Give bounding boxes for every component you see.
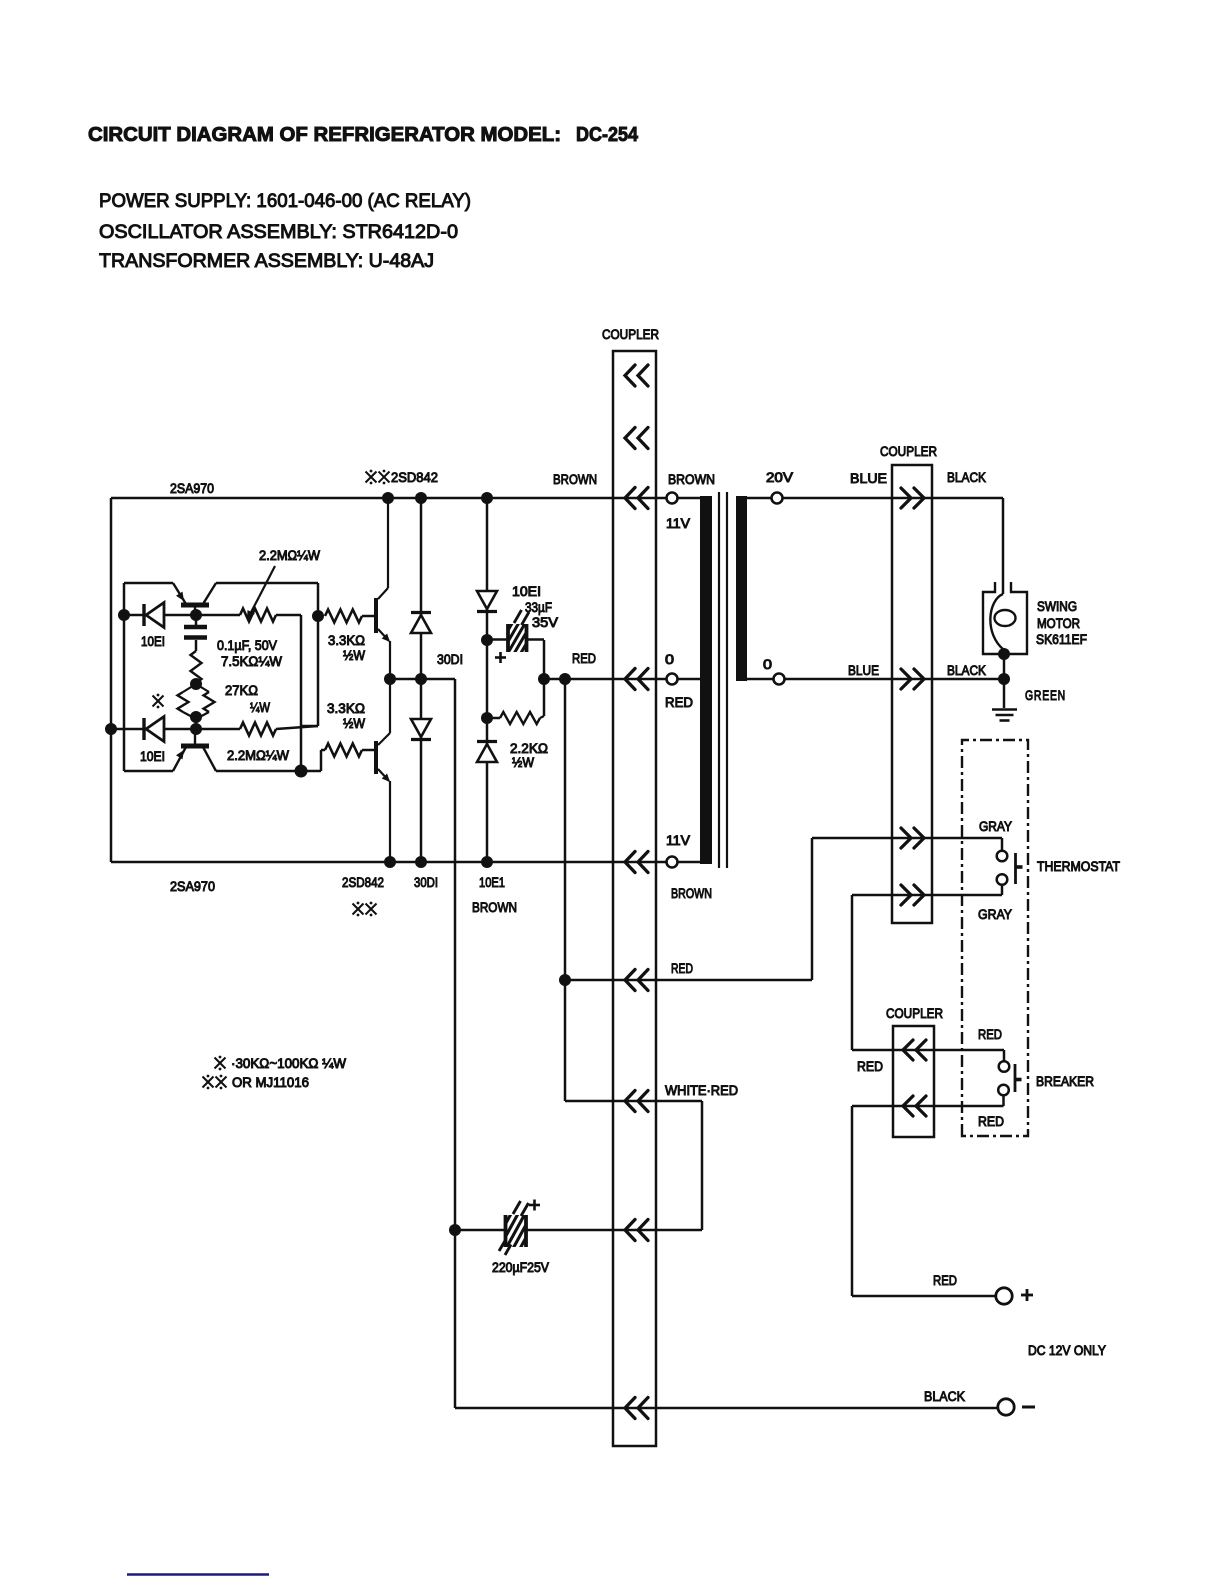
svg-text:2.2MΩ¼W: 2.2MΩ¼W bbox=[259, 548, 320, 563]
svg-text:BREAKER: BREAKER bbox=[1036, 1074, 1094, 1089]
svg-text:OR MJ11016: OR MJ11016 bbox=[232, 1075, 309, 1090]
svg-text:BROWN: BROWN bbox=[553, 472, 597, 487]
svg-text:20V: 20V bbox=[766, 470, 793, 485]
svg-text:RED: RED bbox=[978, 1027, 1002, 1042]
svg-text:POWER SUPPLY: 1601-046-00 (AC: POWER SUPPLY: 1601-046-00 (AC RELAY) bbox=[99, 190, 471, 212]
svg-text:2SD842: 2SD842 bbox=[391, 470, 438, 485]
svg-text:10EI: 10EI bbox=[140, 749, 165, 764]
svg-text:GRAY: GRAY bbox=[979, 819, 1012, 834]
svg-text:2SA970: 2SA970 bbox=[170, 481, 214, 496]
svg-text:220µF25V: 220µF25V bbox=[492, 1260, 549, 1275]
svg-text:DC-254: DC-254 bbox=[576, 124, 639, 146]
svg-text:½W: ½W bbox=[343, 716, 365, 731]
svg-text:35V: 35V bbox=[532, 615, 558, 630]
svg-text:7.5KΩ¼W: 7.5KΩ¼W bbox=[221, 654, 282, 669]
svg-text:10E1: 10E1 bbox=[479, 875, 505, 890]
svg-text:3.3KΩ: 3.3KΩ bbox=[327, 701, 365, 716]
svg-text:BLACK: BLACK bbox=[947, 663, 986, 678]
svg-text:BLUE: BLUE bbox=[850, 471, 887, 486]
svg-text:10EI: 10EI bbox=[141, 634, 165, 649]
svg-text:11V: 11V bbox=[666, 833, 690, 848]
svg-text:BLACK: BLACK bbox=[947, 470, 986, 485]
svg-text:TRANSFORMER ASSEMBLY: U-48AJ: TRANSFORMER ASSEMBLY: U-48AJ bbox=[99, 250, 434, 272]
svg-text:MOTOR: MOTOR bbox=[1037, 616, 1080, 631]
svg-text:OSCILLATOR ASSEMBLY: STR6412D-: OSCILLATOR ASSEMBLY: STR6412D-0 bbox=[99, 221, 458, 243]
svg-text:COUPLER: COUPLER bbox=[602, 327, 659, 342]
svg-text:THERMOSTAT: THERMOSTAT bbox=[1037, 859, 1120, 874]
svg-text:DC 12V ONLY: DC 12V ONLY bbox=[1028, 1343, 1106, 1358]
svg-text:0: 0 bbox=[665, 652, 674, 667]
svg-text:BLUE: BLUE bbox=[848, 663, 879, 678]
svg-text:10EI: 10EI bbox=[512, 584, 541, 599]
svg-text:WHITE·RED: WHITE·RED bbox=[665, 1083, 738, 1098]
svg-text:GRAY: GRAY bbox=[978, 907, 1012, 922]
svg-text:BLACK: BLACK bbox=[924, 1389, 965, 1404]
svg-text:2SA970: 2SA970 bbox=[170, 879, 215, 894]
svg-text:2.2MΩ¼W: 2.2MΩ¼W bbox=[227, 748, 289, 763]
svg-text:0.1µF, 50V: 0.1µF, 50V bbox=[217, 638, 277, 653]
svg-text:RED: RED bbox=[671, 961, 693, 976]
svg-text:SWING: SWING bbox=[1037, 599, 1077, 614]
svg-text:CIRCUIT DIAGRAM OF REFRIGERATO: CIRCUIT DIAGRAM OF REFRIGERATOR MODEL: bbox=[88, 124, 561, 146]
svg-text:27KΩ: 27KΩ bbox=[225, 683, 258, 698]
svg-text:¼W: ¼W bbox=[250, 700, 270, 715]
svg-text:COUPLER: COUPLER bbox=[880, 444, 937, 459]
svg-text:BROWN: BROWN bbox=[472, 900, 517, 915]
svg-text:·30KΩ~100KΩ ¼W: ·30KΩ~100KΩ ¼W bbox=[231, 1056, 346, 1071]
svg-text:½W: ½W bbox=[343, 648, 365, 663]
svg-text:COUPLER: COUPLER bbox=[886, 1006, 943, 1021]
svg-text:RED: RED bbox=[665, 695, 693, 710]
svg-text:RED: RED bbox=[572, 651, 596, 666]
svg-text:RED: RED bbox=[933, 1273, 957, 1288]
svg-text:2.2KΩ: 2.2KΩ bbox=[510, 741, 548, 756]
svg-text:RED: RED bbox=[857, 1059, 883, 1074]
svg-text:30DI: 30DI bbox=[437, 652, 463, 667]
svg-text:BROWN: BROWN bbox=[668, 472, 715, 487]
svg-text:30DI: 30DI bbox=[414, 875, 438, 890]
svg-text:3.3KΩ: 3.3KΩ bbox=[328, 633, 365, 648]
svg-text:SK611EF: SK611EF bbox=[1036, 632, 1087, 647]
svg-text:½W: ½W bbox=[512, 755, 534, 770]
svg-text:GREEN: GREEN bbox=[1025, 688, 1066, 703]
svg-text:RED: RED bbox=[978, 1114, 1004, 1129]
svg-text:0: 0 bbox=[763, 657, 772, 672]
svg-text:BROWN: BROWN bbox=[671, 886, 712, 901]
svg-text:2SD842: 2SD842 bbox=[342, 875, 384, 890]
svg-text:11V: 11V bbox=[666, 516, 690, 531]
